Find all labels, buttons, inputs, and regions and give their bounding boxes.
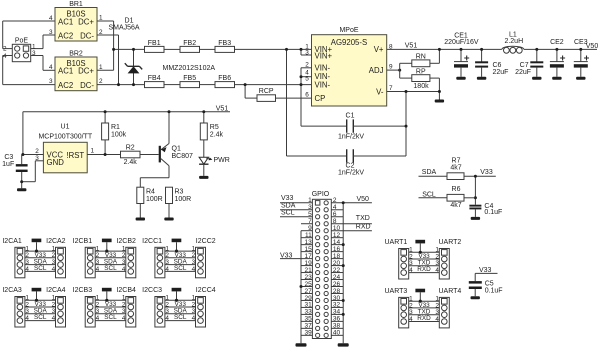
- svg-text:FB1: FB1: [148, 40, 161, 47]
- svg-text:4: 4: [409, 267, 413, 274]
- svg-text:4: 4: [3, 53, 7, 60]
- svg-text:10: 10: [333, 225, 341, 232]
- svg-text:4: 4: [192, 315, 196, 322]
- svg-text:4: 4: [192, 266, 196, 273]
- svg-text:4: 4: [333, 204, 337, 211]
- svg-text:C3: C3: [4, 154, 13, 161]
- svg-text:AC1: AC1: [58, 17, 73, 26]
- svg-text:FB4: FB4: [148, 75, 161, 82]
- svg-text:5: 5: [308, 211, 312, 218]
- svg-text:UART1: UART1: [384, 239, 407, 246]
- svg-text:SCL: SCL: [281, 210, 295, 217]
- svg-text:4: 4: [165, 315, 169, 322]
- svg-text:DC-: DC-: [80, 81, 94, 90]
- svg-text:18: 18: [333, 253, 341, 260]
- svg-text:SMAJ56A: SMAJ56A: [108, 25, 139, 32]
- svg-text:33: 33: [304, 309, 312, 316]
- svg-text:6: 6: [333, 211, 337, 218]
- svg-text:CP: CP: [315, 94, 326, 103]
- svg-text:C7: C7: [520, 62, 529, 69]
- svg-text:4: 4: [122, 315, 126, 322]
- svg-text:27: 27: [304, 288, 312, 295]
- svg-text:0.1uF: 0.1uF: [484, 209, 502, 216]
- svg-text:SCL: SCL: [104, 265, 117, 272]
- svg-text:V51: V51: [216, 105, 229, 112]
- svg-text:1: 1: [99, 15, 103, 22]
- svg-text:Q1: Q1: [172, 146, 181, 153]
- svg-text:R2: R2: [126, 144, 135, 151]
- svg-text:V33: V33: [480, 169, 493, 176]
- svg-text:UART3: UART3: [384, 288, 407, 295]
- svg-text:15: 15: [304, 246, 312, 253]
- svg-text:26: 26: [333, 281, 341, 288]
- svg-text:12: 12: [333, 232, 341, 239]
- svg-text:22: 22: [333, 267, 341, 274]
- svg-text:!RST: !RST: [66, 151, 84, 160]
- svg-text:RXD: RXD: [417, 266, 431, 273]
- svg-text:4: 4: [122, 266, 126, 273]
- svg-text:21: 21: [304, 267, 312, 274]
- svg-text:DC-: DC-: [80, 31, 94, 40]
- svg-text:R3: R3: [175, 189, 184, 196]
- svg-text:RXD: RXD: [356, 224, 371, 231]
- svg-text:1uF: 1uF: [2, 161, 14, 168]
- svg-text:TXD: TXD: [356, 215, 370, 222]
- svg-text:2: 2: [333, 197, 337, 204]
- svg-text:2.2uH: 2.2uH: [504, 38, 523, 45]
- svg-text:9: 9: [308, 225, 312, 232]
- svg-text:4k7: 4k7: [450, 165, 461, 172]
- svg-text:37: 37: [304, 323, 312, 330]
- svg-text:1: 1: [99, 64, 103, 71]
- svg-text:RXD: RXD: [417, 315, 431, 322]
- svg-text:R6: R6: [452, 186, 461, 193]
- svg-text:I2CA3: I2CA3: [2, 287, 22, 294]
- svg-text:30: 30: [333, 295, 341, 302]
- svg-text:AC2: AC2: [58, 31, 73, 40]
- svg-text:180k: 180k: [413, 83, 429, 90]
- svg-text:8: 8: [333, 218, 337, 225]
- svg-text:1: 1: [91, 148, 95, 155]
- svg-text:GPIO: GPIO: [312, 191, 330, 198]
- svg-text:2: 2: [35, 148, 39, 155]
- svg-text:V+: V+: [374, 45, 384, 54]
- svg-text:220uF/16V: 220uF/16V: [444, 39, 479, 46]
- svg-text:4: 4: [435, 267, 439, 274]
- svg-text:I2CB2: I2CB2: [116, 238, 136, 245]
- svg-text:V33: V33: [281, 195, 294, 202]
- svg-text:100R: 100R: [146, 196, 163, 203]
- svg-text:4: 4: [96, 315, 100, 322]
- svg-text:14: 14: [333, 239, 341, 246]
- svg-text:3: 3: [49, 78, 53, 85]
- svg-text:VIN+: VIN+: [315, 52, 333, 61]
- svg-text:38: 38: [333, 323, 341, 330]
- svg-text:V-: V-: [376, 87, 384, 96]
- svg-text:BR2: BR2: [69, 51, 83, 58]
- svg-text:4: 4: [96, 266, 100, 273]
- svg-text:0.1uF: 0.1uF: [485, 288, 503, 295]
- svg-text:SDA: SDA: [422, 169, 437, 176]
- svg-text:GND: GND: [47, 158, 65, 167]
- svg-text:RCP: RCP: [259, 88, 274, 95]
- svg-text:SDA: SDA: [281, 202, 296, 209]
- svg-text:32: 32: [333, 302, 341, 309]
- svg-text:RN: RN: [416, 53, 426, 60]
- svg-text:36: 36: [333, 316, 341, 323]
- svg-text:SCL: SCL: [34, 314, 47, 321]
- svg-text:34: 34: [333, 309, 341, 316]
- svg-text:PWR: PWR: [214, 157, 230, 164]
- svg-text:UART2: UART2: [438, 239, 461, 246]
- svg-text:U1: U1: [61, 124, 70, 131]
- svg-text:DC+: DC+: [78, 67, 94, 76]
- svg-text:I2CA4: I2CA4: [46, 287, 66, 294]
- svg-text:C5: C5: [485, 280, 494, 287]
- svg-text:SCL: SCL: [34, 265, 47, 272]
- svg-text:19: 19: [304, 260, 312, 267]
- svg-text:4: 4: [25, 266, 29, 273]
- svg-text:7: 7: [308, 218, 312, 225]
- svg-text:1: 1: [308, 197, 312, 204]
- svg-text:MCP100T300/TT: MCP100T300/TT: [38, 134, 92, 141]
- svg-text:SCL: SCL: [104, 314, 117, 321]
- svg-text:4: 4: [165, 266, 169, 273]
- svg-text:3: 3: [32, 50, 36, 57]
- svg-text:4: 4: [49, 15, 53, 22]
- svg-text:VIN-: VIN-: [315, 80, 331, 89]
- svg-text:MPoE: MPoE: [339, 27, 358, 34]
- svg-text:24: 24: [333, 274, 341, 281]
- svg-text:31: 31: [304, 302, 312, 309]
- svg-text:13: 13: [304, 239, 312, 246]
- svg-text:SCL: SCL: [174, 265, 187, 272]
- svg-text:BR1: BR1: [69, 1, 83, 8]
- svg-text:D1: D1: [125, 18, 134, 25]
- svg-text:23: 23: [304, 274, 312, 281]
- svg-text:I2CA2: I2CA2: [46, 238, 66, 245]
- svg-text:AC1: AC1: [58, 67, 73, 76]
- svg-text:AG9205-S: AG9205-S: [331, 38, 367, 47]
- svg-text:V50: V50: [357, 196, 370, 203]
- svg-text:I2CC2: I2CC2: [196, 238, 216, 245]
- svg-text:4: 4: [49, 64, 53, 71]
- svg-text:29: 29: [304, 295, 312, 302]
- svg-text:4k7: 4k7: [450, 202, 461, 209]
- svg-text:R5: R5: [210, 124, 219, 131]
- svg-text:4: 4: [409, 316, 413, 323]
- svg-text:2.4k: 2.4k: [124, 159, 138, 166]
- svg-text:V50: V50: [586, 43, 599, 50]
- svg-text:3: 3: [308, 204, 312, 211]
- svg-text:SCL: SCL: [174, 314, 187, 321]
- svg-text:I2CA1: I2CA1: [2, 238, 22, 245]
- svg-text:UART4: UART4: [438, 288, 461, 295]
- svg-text:CE2: CE2: [550, 39, 564, 46]
- svg-text:6: 6: [305, 91, 309, 98]
- svg-text:9: 9: [389, 63, 393, 70]
- svg-text:R4: R4: [146, 189, 155, 196]
- svg-text:V33: V33: [280, 253, 293, 260]
- svg-text:ADJ: ADJ: [369, 66, 384, 75]
- svg-text:I2CB4: I2CB4: [116, 287, 136, 294]
- svg-text:4: 4: [52, 315, 56, 322]
- svg-text:DC+: DC+: [78, 17, 94, 26]
- svg-text:FB5: FB5: [183, 75, 196, 82]
- svg-text:2.4k: 2.4k: [210, 132, 224, 139]
- svg-text:17: 17: [304, 253, 312, 260]
- svg-text:I2CB1: I2CB1: [73, 238, 93, 245]
- svg-text:11: 11: [305, 232, 312, 239]
- svg-text:PoE: PoE: [15, 38, 29, 45]
- svg-text:100k: 100k: [111, 132, 127, 139]
- svg-text:FB3: FB3: [218, 40, 231, 47]
- svg-text:20: 20: [333, 260, 341, 267]
- svg-text:1nF/2kV: 1nF/2kV: [338, 170, 364, 177]
- svg-text:I2CC1: I2CC1: [142, 238, 162, 245]
- svg-text:MMZ2012S102A: MMZ2012S102A: [163, 65, 216, 72]
- svg-text:FB6: FB6: [218, 75, 231, 82]
- svg-text:4: 4: [25, 315, 29, 322]
- svg-text:AC2: AC2: [58, 81, 73, 90]
- svg-text:1nF/2kV: 1nF/2kV: [338, 134, 364, 141]
- svg-text:RP: RP: [416, 69, 426, 76]
- svg-text:100R: 100R: [175, 196, 192, 203]
- svg-text:4: 4: [435, 316, 439, 323]
- svg-text:FB2: FB2: [183, 40, 196, 47]
- svg-text:C6: C6: [493, 62, 502, 69]
- svg-text:V51: V51: [405, 43, 418, 50]
- svg-text:4: 4: [52, 266, 56, 273]
- svg-text:BC807: BC807: [172, 153, 194, 160]
- svg-text:I2CC4: I2CC4: [196, 287, 216, 294]
- svg-text:25: 25: [304, 281, 312, 288]
- svg-text:16: 16: [333, 246, 341, 253]
- svg-text:R1: R1: [111, 124, 120, 131]
- svg-text:I2CB3: I2CB3: [73, 287, 93, 294]
- svg-text:C1: C1: [346, 113, 355, 120]
- svg-text:22uF: 22uF: [493, 69, 509, 76]
- svg-text:C2: C2: [346, 163, 355, 170]
- svg-text:22uF: 22uF: [515, 69, 531, 76]
- svg-text:35: 35: [304, 316, 312, 323]
- svg-text:40: 40: [333, 330, 341, 337]
- svg-text:28: 28: [333, 288, 341, 295]
- svg-text:I2CC3: I2CC3: [142, 287, 162, 294]
- svg-text:SCL: SCL: [422, 191, 436, 198]
- svg-text:39: 39: [304, 330, 312, 337]
